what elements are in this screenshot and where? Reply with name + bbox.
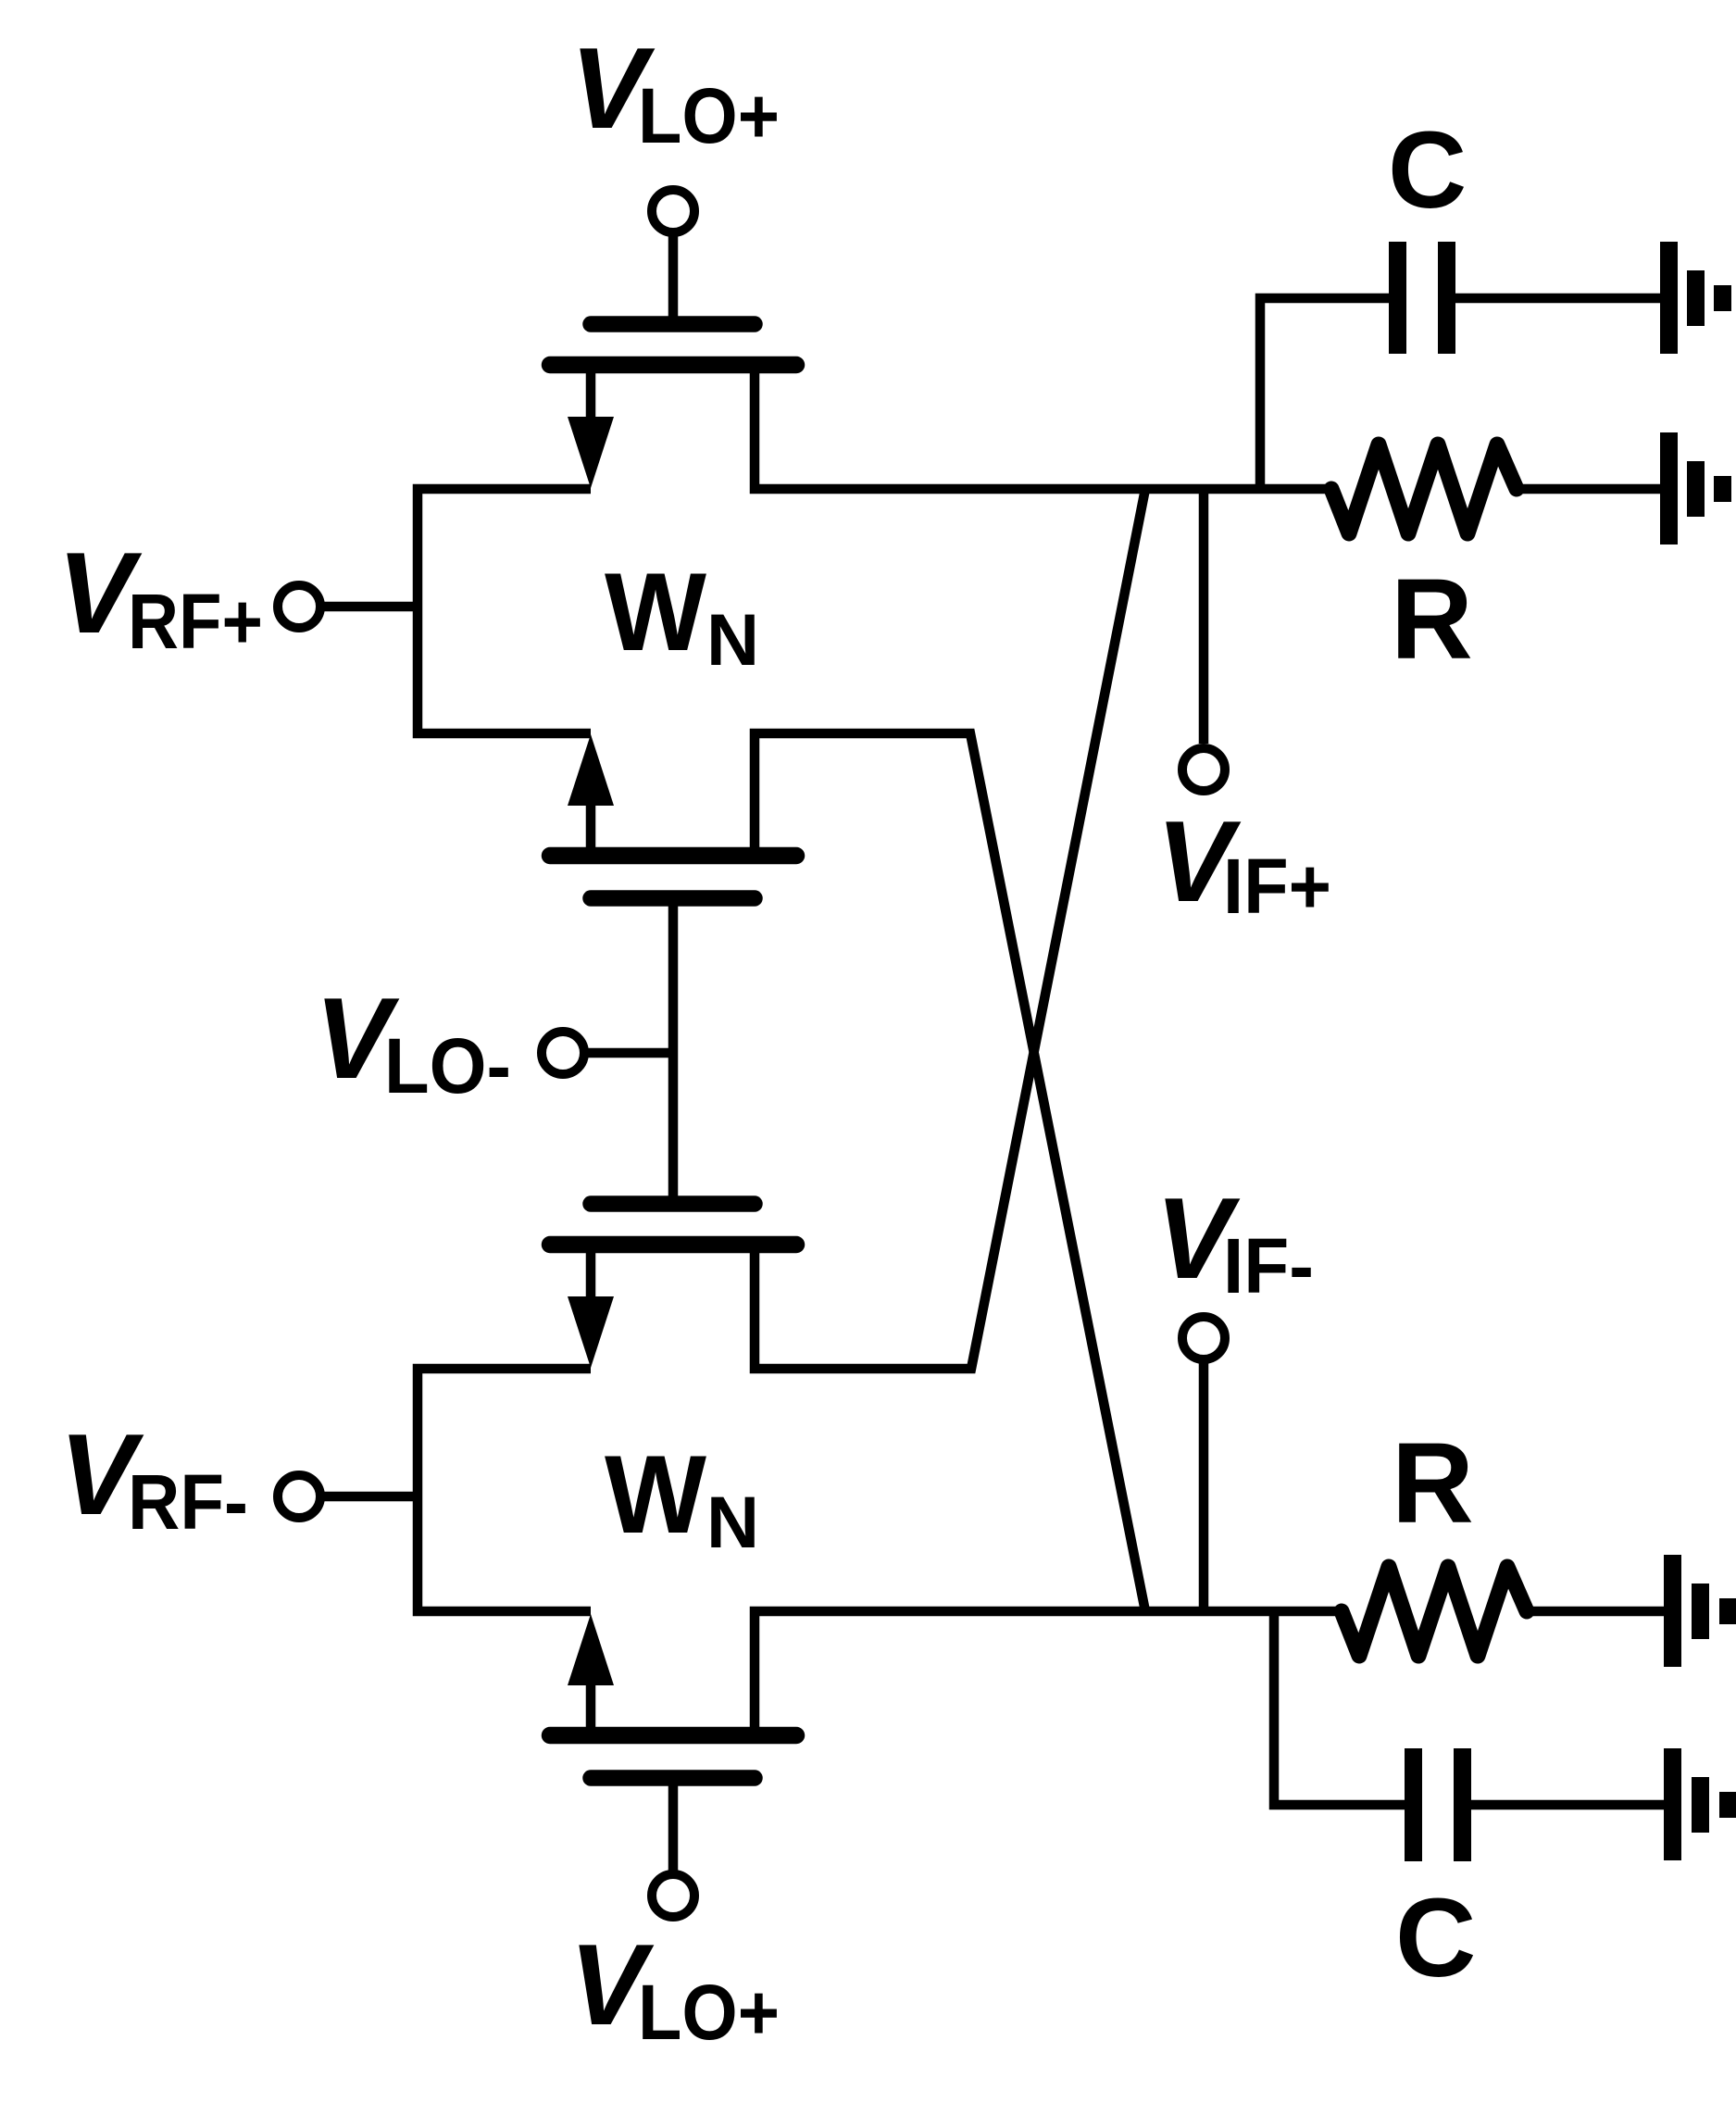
wire C1 to ground [1455, 294, 1662, 304]
drain terminal M3 + wire3 right + cross wire A [755, 489, 1145, 1369]
V_RF+ stub wire [320, 602, 418, 612]
label V_IF- [1155, 1175, 1314, 1309]
label V_RF- [59, 1411, 248, 1546]
terminal V_RF+ [278, 585, 320, 628]
svg-text:LO+: LO+ [638, 72, 780, 159]
source terminal M4 (arrow shaft) [586, 1683, 596, 1732]
channel bar M1 [550, 357, 796, 374]
svg-text:C: C [1388, 109, 1467, 232]
ground symbol (R2) [1664, 1555, 1736, 1667]
ground symbol (C2) [1664, 1748, 1736, 1860]
source arrow M1 [568, 417, 614, 488]
svg-text:C: C [1395, 1874, 1476, 2000]
source terminal M2 (arrow shaft) [586, 803, 596, 852]
drain terminal M4 + wire4 right [755, 1611, 1342, 1732]
gate bar M4 [591, 1770, 755, 1786]
svg-text:RF+: RF+ [128, 578, 263, 665]
gate wire M4 to V_LO+ terminal [668, 1778, 679, 1874]
gate wire M2-M3 shared [668, 898, 679, 1204]
svg-text:W: W [605, 550, 707, 674]
terminal V_LO+ (top) [652, 190, 694, 232]
transistor M4 (bottom, gate to V_LO+) [550, 1611, 1342, 1778]
transistor M2 (upper middle, gate to V_LO-) [550, 733, 1145, 1611]
drain terminal M1 + wire1 right [755, 369, 1331, 489]
capacitor C2 plates [1405, 1748, 1471, 1861]
V_IF- stub wire [1199, 1359, 1209, 1611]
wire to capacitor C1 [1260, 298, 1389, 489]
svg-text:RF-: RF- [128, 1458, 248, 1546]
svg-text:N: N [706, 598, 759, 681]
svg-text:IF-: IF- [1223, 1222, 1314, 1309]
resistor R2 [1342, 1567, 1527, 1656]
label V_LO- [315, 975, 511, 1109]
transistor M1 (top, gate to V_LO+) [550, 324, 1331, 489]
label V_LO+ (bottom) [569, 1921, 780, 2056]
wire V_RF+ branch: wire1 left, vertical, wire2 left [418, 489, 591, 733]
svg-text:LO-: LO- [384, 1022, 511, 1109]
capacitor C1 plates [1389, 242, 1455, 354]
svg-text:LO+: LO+ [638, 1969, 780, 2056]
channel bar M2 [550, 847, 796, 865]
terminal V_IF- [1182, 1317, 1225, 1359]
V_RF- stub wire [320, 1492, 418, 1502]
label W_N (top) [605, 550, 759, 681]
terminal V_IF+ [1182, 748, 1225, 791]
resistor R1 [1331, 444, 1517, 533]
source terminal M3 (arrow shaft) [586, 1248, 596, 1301]
label W_N (bottom) [605, 1433, 759, 1563]
gate bar M1 [591, 316, 755, 332]
V_LO- stub wire [584, 1048, 673, 1058]
drain terminal M2 + wire2 right + cross wire B [755, 733, 1145, 1611]
channel bar M4 [550, 1727, 796, 1745]
terminal V_LO- [542, 1032, 584, 1074]
gate bar M3 [591, 1195, 755, 1212]
wire R2 to ground [1527, 1607, 1666, 1617]
gate bar M2 [591, 890, 755, 907]
svg-text:R: R [1391, 557, 1473, 683]
label V_RF+ [57, 530, 263, 665]
svg-text:R: R [1392, 1421, 1474, 1547]
terminal V_RF- [278, 1475, 320, 1518]
ground symbol (R1) [1660, 432, 1731, 545]
transistor M3 (lower middle, gate to V_LO-) [550, 489, 1145, 1369]
wire V_RF- branch: wire3 left, vertical, wire4 left [418, 1369, 591, 1611]
svg-text:W: W [605, 1433, 707, 1557]
channel bar M3 [550, 1236, 796, 1254]
source arrow M4 [568, 1614, 614, 1685]
terminal V_LO+ (bottom) [652, 1874, 694, 1917]
wire to capacitor C2 [1274, 1611, 1405, 1805]
ground symbol (C1) [1660, 242, 1731, 354]
label V_IF+ [1156, 798, 1331, 930]
svg-text:IF+: IF+ [1223, 843, 1331, 930]
V_IF+ stub wire [1199, 489, 1209, 744]
source terminal M1 (arrow shaft) [586, 369, 596, 421]
label V_LO+ (top) [570, 25, 780, 159]
wire C2 to ground [1471, 1800, 1666, 1810]
gate wire M1 to V_LO+ terminal [668, 232, 679, 324]
svg-text:N: N [706, 1481, 759, 1563]
source arrow M3 [568, 1296, 614, 1368]
source arrow M2 [568, 734, 614, 806]
wire R1 to ground [1517, 484, 1662, 494]
